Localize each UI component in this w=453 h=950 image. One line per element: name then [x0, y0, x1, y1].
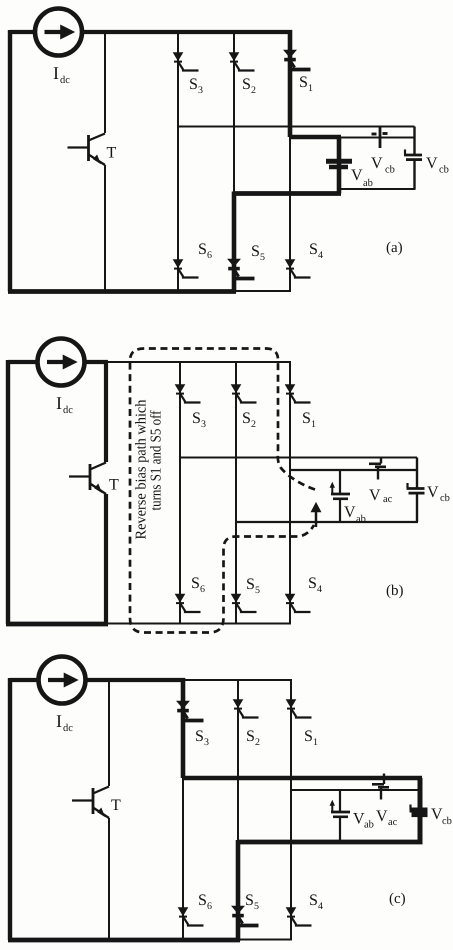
svg-text:S: S: [191, 575, 200, 592]
svg-text:V: V: [371, 155, 383, 172]
svg-text:S: S: [246, 576, 255, 593]
transistor T (a): [68, 134, 106, 166]
label reverse bias path line1 (b): [134, 399, 150, 539]
svg-text:S: S: [242, 410, 251, 427]
svg-text:V: V: [427, 484, 439, 501]
svg-text:(a): (a): [386, 240, 403, 256]
wire middle rail c (b): [180, 457, 417, 459]
svg-text:ab: ab: [356, 514, 366, 525]
label (c): [389, 891, 406, 907]
wire cap loop bottom thin (a): [339, 188, 416, 190]
svg-text:V: V: [344, 504, 356, 521]
thyristor S6 (c): [178, 908, 203, 926]
svg-text:Reverse bias path which: Reverse bias path which: [134, 399, 150, 539]
svg-text:dc: dc: [63, 723, 73, 734]
wire leg S5 bold (a): [232, 192, 237, 293]
dashed reverse-bias path loop (b): [130, 349, 315, 633]
wire top rail left (c): [10, 678, 39, 682]
label T (c): [111, 797, 121, 814]
current source I_dc (c): [39, 657, 86, 704]
wire top rail (a): [82, 30, 292, 34]
svg-text:S: S: [251, 243, 260, 260]
svg-text:V: V: [426, 155, 438, 172]
svg-text:S: S: [195, 728, 204, 745]
label S6 (c): [198, 892, 212, 912]
svg-text:ab: ab: [363, 178, 373, 189]
thyristor S4 (c): [286, 908, 311, 926]
svg-text:2: 2: [251, 85, 256, 96]
wire transistor branch upper bold (b): [104, 362, 108, 462]
label (a): [386, 240, 403, 256]
wire middle rail bold (c): [183, 776, 422, 781]
svg-text:3: 3: [204, 737, 209, 748]
label S1 (b): [302, 410, 316, 430]
wire cap loop bottom (b): [236, 521, 418, 523]
svg-text:I: I: [56, 711, 62, 731]
svg-text:2: 2: [251, 419, 256, 430]
label V_cb middle (a): [371, 155, 395, 176]
svg-text:6: 6: [200, 584, 205, 595]
svg-text:dc: dc: [60, 75, 70, 86]
transistor T (c): [72, 787, 109, 819]
svg-text:I: I: [56, 393, 62, 413]
thyristor S5 (c): [232, 906, 259, 926]
wire phase-a rail thin (a): [339, 137, 415, 139]
svg-text:6: 6: [207, 250, 212, 261]
label S3 (a): [189, 76, 203, 96]
thyristor S2 (a): [229, 53, 254, 71]
wire leg S5 bold (c): [236, 840, 241, 941]
wire leg S1-S4 (c): [290, 680, 292, 940]
wire left bus (b): [6, 360, 10, 624]
wire bottom rail bold (a): [8, 289, 236, 294]
current source I_dc (b): [38, 339, 85, 386]
label S5 (a): [251, 243, 265, 263]
thyristor S4 (a): [285, 260, 310, 278]
label S2 (a): [242, 76, 256, 96]
label S4 (a): [309, 241, 323, 261]
wire top rail bold (b): [84, 360, 108, 364]
svg-text:T: T: [107, 145, 117, 162]
wire leg S6 (c): [182, 778, 184, 940]
wire bottom rail thin (b): [106, 623, 291, 625]
label I_dc (b): [56, 393, 73, 416]
label S2 (c): [246, 728, 260, 748]
arrow into V_ab node (b): [311, 503, 321, 528]
svg-text:S: S: [309, 241, 318, 258]
thyristor S2 (b): [231, 385, 256, 403]
wire phase-a rail bold (a): [290, 135, 341, 139]
svg-text:S: S: [198, 892, 207, 909]
svg-text:S: S: [242, 76, 251, 93]
label S4 (c): [309, 892, 323, 912]
thyristor S3 (c): [177, 701, 204, 721]
thyristor S2 (c): [233, 700, 258, 718]
wire leg S2-S5 upper (c): [237, 680, 239, 842]
svg-text:4: 4: [318, 250, 323, 261]
svg-text:S: S: [246, 728, 255, 745]
svg-text:S: S: [304, 728, 313, 745]
wire leg S3-S6 (b): [179, 362, 181, 624]
capacitor V_ac (c): [372, 774, 389, 800]
label S6 (a): [198, 241, 212, 261]
svg-text:cb: cb: [385, 165, 395, 176]
thyristor S3 (b): [175, 385, 200, 403]
svg-text:1: 1: [313, 737, 318, 748]
wire leg S1 bold (a): [288, 30, 293, 137]
wire leg S1-S4 (b): [289, 362, 291, 624]
svg-text:(c): (c): [389, 891, 406, 907]
svg-text:T: T: [109, 477, 119, 494]
wire transistor branch lower (c): [108, 818, 110, 940]
wire left bus (c): [8, 678, 12, 940]
wire top rail thin (c): [183, 679, 292, 681]
label S3 (b): [192, 410, 206, 430]
svg-text:S: S: [302, 410, 311, 427]
wire transistor branch lower (a): [104, 165, 106, 292]
wire bottom rail thin (a): [234, 290, 291, 292]
thyristor S6 (b): [175, 594, 200, 612]
label V_ab (a): [351, 167, 373, 189]
thyristor S1 (c): [286, 700, 311, 718]
svg-text:3: 3: [198, 85, 203, 96]
wire transistor branch upper (a): [104, 32, 106, 133]
wire phase-a rail (c): [291, 789, 420, 791]
svg-text:V: V: [369, 487, 381, 504]
svg-text:cb: cb: [442, 816, 452, 827]
svg-text:4: 4: [318, 901, 323, 912]
capacitor V_ab (c): [330, 790, 350, 842]
wire top rail left (b): [8, 360, 38, 364]
wire top rail bold (c): [85, 678, 185, 682]
label V_ac (c): [376, 808, 398, 828]
label S6 (b): [191, 575, 205, 595]
svg-text:6: 6: [207, 901, 212, 912]
svg-text:4: 4: [317, 584, 322, 595]
label (b): [386, 583, 404, 599]
wire leg S4 lower (a): [289, 137, 291, 292]
label I_dc (c): [56, 711, 73, 734]
thyristor S5 (b): [231, 594, 256, 612]
svg-text:(b): (b): [386, 583, 404, 599]
svg-text:S: S: [309, 892, 318, 909]
label reverse bias path line2 (b): [149, 410, 165, 510]
svg-text:V: V: [376, 808, 388, 825]
svg-text:I: I: [53, 63, 59, 83]
transistor T (b): [69, 463, 106, 495]
label T (b): [109, 477, 119, 494]
thyristor S1 (a): [284, 50, 311, 70]
label V_ab (c): [353, 811, 374, 831]
svg-text:turns S1 and S5 off: turns S1 and S5 off: [149, 410, 165, 510]
label S5 (b): [246, 576, 260, 596]
wire leg S2-S5 upper (a): [233, 32, 235, 194]
capacitor V_cb bold (c): [410, 778, 428, 842]
svg-text:T: T: [111, 797, 121, 814]
label S5 (c): [245, 892, 259, 912]
thyristor S6 (a): [173, 260, 198, 278]
svg-text:5: 5: [260, 252, 265, 263]
wire transistor branch lower bold (b): [104, 494, 108, 624]
svg-text:S: S: [299, 74, 308, 91]
label V_ac (b): [369, 487, 393, 505]
svg-text:ac: ac: [383, 494, 393, 505]
current source I_dc (a): [35, 9, 82, 56]
wire bottom rail bold (c): [8, 938, 240, 943]
label T (a): [107, 145, 117, 162]
svg-text:ab: ab: [364, 820, 374, 831]
svg-text:S: S: [198, 241, 207, 258]
wire phase-a rail (b): [290, 469, 417, 471]
label S3 (c): [195, 728, 209, 748]
capacitor V_ab (a): [326, 137, 352, 194]
svg-text:3: 3: [201, 419, 206, 430]
svg-text:S: S: [308, 575, 317, 592]
svg-text:S: S: [245, 892, 254, 909]
capacitor V_cb right (a): [404, 127, 422, 190]
label V_cb (c): [431, 806, 452, 827]
wire cap loop bottom bold (a): [234, 191, 341, 196]
label V_cb right (a): [426, 155, 449, 176]
wire cap loop bottom bold (c): [238, 840, 423, 845]
label I_dc (a): [53, 63, 70, 86]
label V_ab (b): [344, 504, 366, 525]
svg-text:S: S: [192, 410, 201, 427]
label S4 (b): [308, 575, 322, 595]
svg-text:dc: dc: [63, 405, 73, 416]
svg-text:1: 1: [311, 419, 316, 430]
thyristor S5 (a): [228, 259, 255, 279]
wire leg S3 bold (c): [181, 678, 186, 778]
wire leg S2-S5 (b): [235, 362, 237, 624]
wire bottom rail bold (b): [6, 622, 108, 627]
svg-text:ac: ac: [388, 817, 398, 828]
svg-text:S: S: [189, 76, 198, 93]
svg-text:V: V: [351, 167, 363, 184]
wire top rail left (a): [10, 30, 35, 34]
svg-text:1: 1: [308, 83, 313, 94]
wire top rail thin (b): [106, 361, 291, 363]
wire leg S3-S6 (a): [177, 32, 179, 292]
thyristor S3 (a): [173, 53, 198, 71]
capacitor V_ac (b): [369, 458, 386, 480]
capacitor V_ab (b): [330, 470, 350, 522]
label V_cb (b): [427, 484, 450, 504]
svg-text:5: 5: [254, 901, 259, 912]
label S1 (a): [299, 74, 313, 94]
svg-text:2: 2: [255, 737, 260, 748]
svg-text:5: 5: [255, 585, 260, 596]
label S2 (b): [242, 410, 256, 430]
svg-text:cb: cb: [439, 165, 449, 176]
svg-text:cb: cb: [440, 493, 450, 504]
thyristor S4 (b): [285, 594, 310, 612]
wire bottom rail thin (c): [238, 939, 292, 941]
thyristor S1 (b): [285, 385, 310, 403]
capacitor V_cb middle (a): [372, 127, 388, 148]
capacitor V_cb (b): [407, 458, 425, 523]
wire transistor branch upper (c): [108, 680, 110, 786]
wire middle rail c (a): [178, 126, 415, 128]
wire left bus (a): [8, 30, 12, 292]
label S1 (c): [304, 728, 318, 748]
